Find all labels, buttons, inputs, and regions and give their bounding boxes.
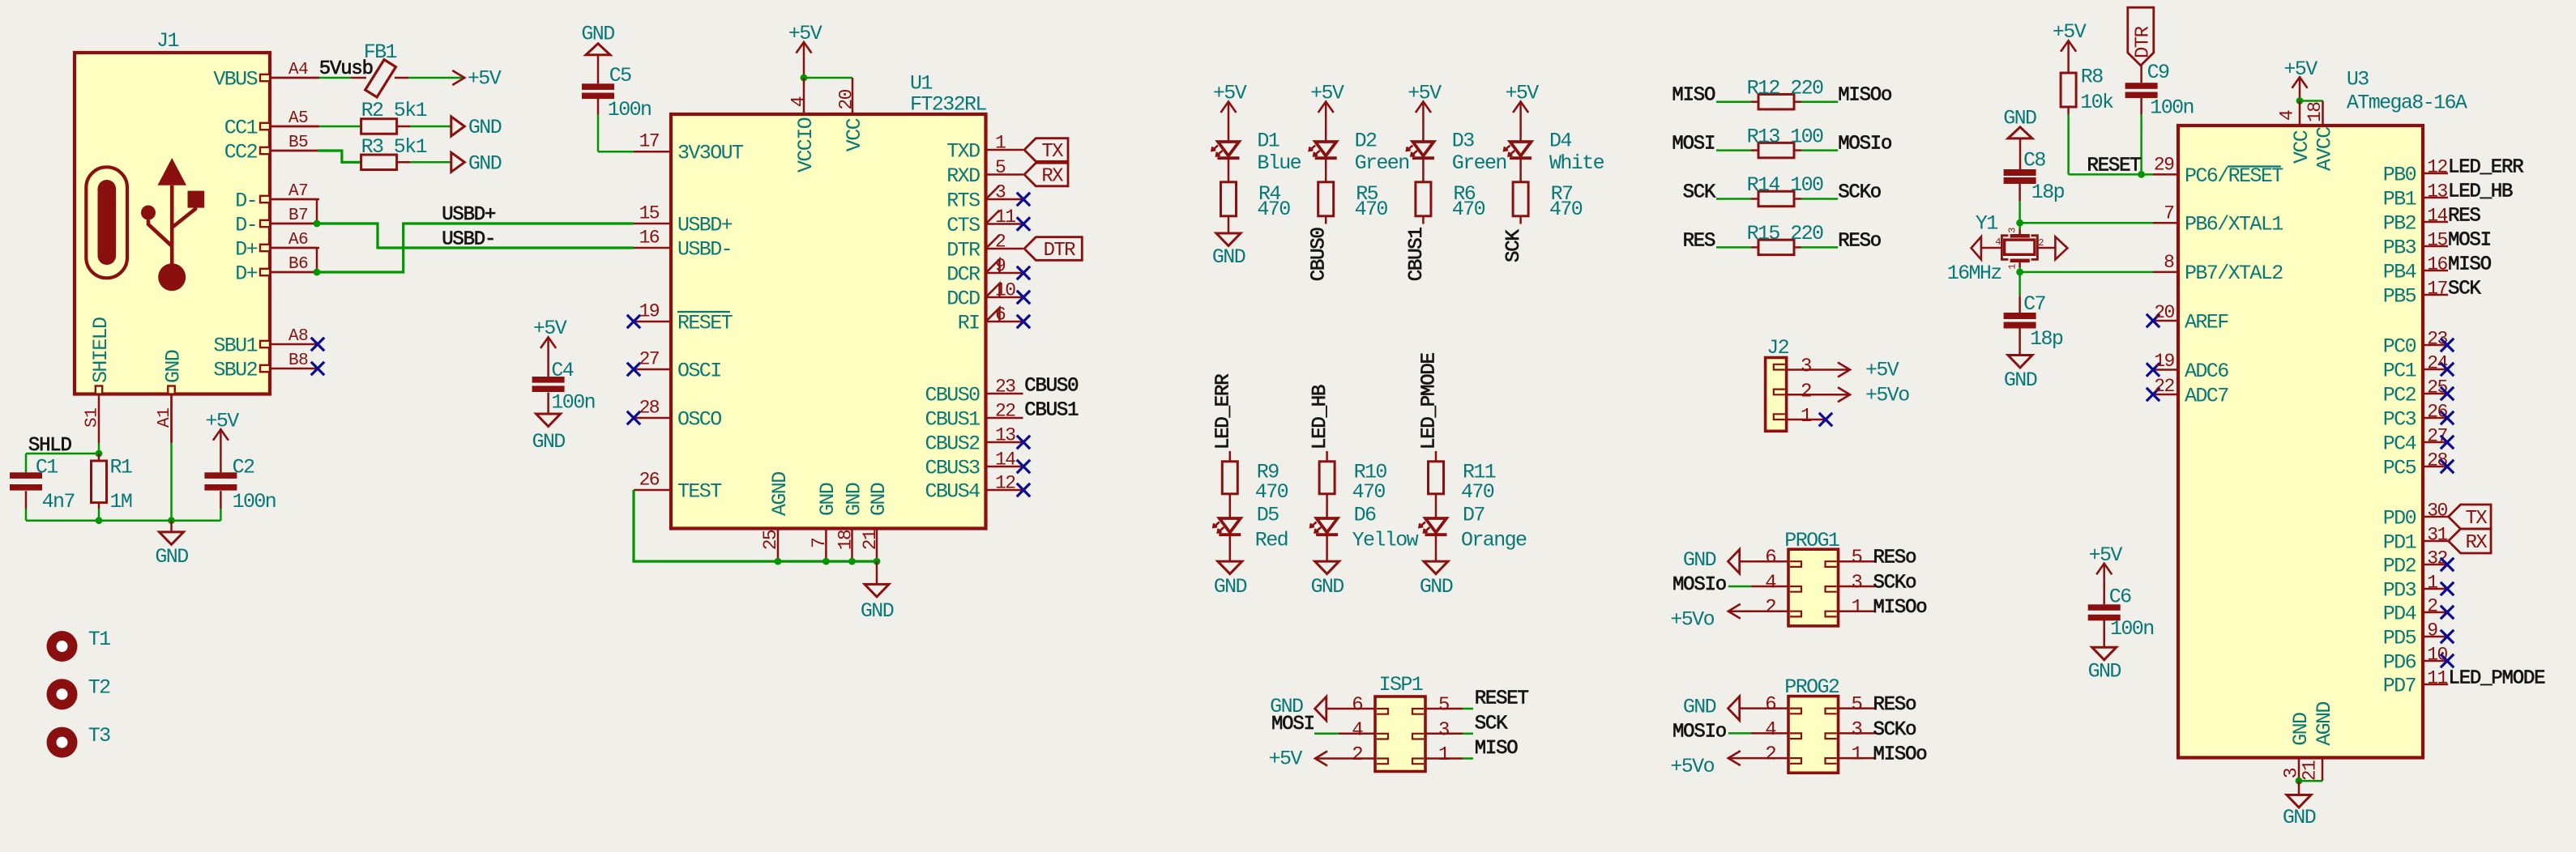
svg-text:12: 12 bbox=[2427, 157, 2447, 178]
svg-text:PC4: PC4 bbox=[2383, 432, 2416, 455]
svg-text:2: 2 bbox=[1765, 744, 1775, 766]
svg-text:PB5: PB5 bbox=[2383, 284, 2416, 308]
svg-text:+5V: +5V bbox=[1310, 82, 1344, 105]
svg-text:GND: GND bbox=[155, 545, 188, 569]
svg-text:+5V: +5V bbox=[205, 410, 239, 433]
svg-text:18p: 18p bbox=[2031, 181, 2065, 204]
svg-text:MOSIo: MOSIo bbox=[1838, 134, 1891, 155]
svg-text:S1: S1 bbox=[83, 408, 102, 428]
svg-text:PD4: PD4 bbox=[2383, 602, 2416, 625]
svg-text:PD5: PD5 bbox=[2383, 626, 2416, 650]
svg-text:C5: C5 bbox=[609, 64, 631, 87]
svg-text:CBUS0: CBUS0 bbox=[925, 383, 980, 407]
svg-text:LED_ERR: LED_ERR bbox=[1212, 374, 1234, 449]
svg-text:PC0: PC0 bbox=[2383, 334, 2416, 358]
svg-text:Green: Green bbox=[1355, 151, 1409, 175]
svg-text:GND: GND bbox=[2289, 713, 2313, 746]
svg-text:USBD-: USBD- bbox=[442, 229, 495, 251]
svg-text:ADC6: ADC6 bbox=[2185, 360, 2228, 383]
svg-text:3V3OUT: 3V3OUT bbox=[677, 141, 744, 164]
svg-text:GND: GND bbox=[1212, 245, 1245, 269]
svg-text:MOSI: MOSI bbox=[2448, 230, 2491, 252]
svg-text:PD3: PD3 bbox=[2383, 578, 2416, 602]
svg-text:GND: GND bbox=[842, 483, 865, 516]
svg-text:10: 10 bbox=[995, 279, 1015, 300]
svg-text:GND: GND bbox=[816, 483, 839, 516]
svg-text:PC3: PC3 bbox=[2383, 407, 2416, 431]
svg-text:1: 1 bbox=[1852, 597, 1863, 619]
svg-text:PC6/RESET: PC6/RESET bbox=[2185, 164, 2283, 188]
svg-text:+5Vo: +5Vo bbox=[1670, 608, 1714, 632]
svg-text:GND: GND bbox=[1214, 575, 1247, 599]
svg-text:+5V: +5V bbox=[2089, 543, 2123, 567]
svg-text:SCK: SCK bbox=[1503, 229, 1525, 262]
svg-text:AGND: AGND bbox=[768, 472, 792, 516]
svg-text:4: 4 bbox=[1995, 236, 2001, 248]
svg-text:470: 470 bbox=[1549, 198, 1583, 221]
svg-text:5: 5 bbox=[1852, 547, 1862, 569]
svg-text:3: 3 bbox=[1852, 573, 1862, 594]
svg-text:4: 4 bbox=[1352, 719, 1363, 741]
svg-text:9: 9 bbox=[2427, 620, 2437, 641]
svg-text:MOSIo: MOSIo bbox=[1672, 721, 1726, 743]
svg-text:7: 7 bbox=[809, 539, 830, 548]
svg-text:C2: C2 bbox=[233, 455, 254, 479]
svg-text:Blue: Blue bbox=[1257, 151, 1301, 175]
svg-text:470: 470 bbox=[1352, 480, 1386, 504]
svg-text:VCCIO: VCCIO bbox=[794, 117, 818, 173]
svg-text:D5: D5 bbox=[1257, 503, 1279, 526]
svg-text:GND: GND bbox=[161, 350, 185, 383]
svg-text:30: 30 bbox=[2427, 501, 2447, 522]
svg-text:GND: GND bbox=[2283, 806, 2316, 829]
svg-text:GND: GND bbox=[532, 430, 565, 454]
svg-text:19: 19 bbox=[2154, 351, 2174, 372]
svg-text:D-: D- bbox=[235, 190, 257, 213]
svg-text:D4: D4 bbox=[1549, 129, 1571, 152]
svg-text:A4: A4 bbox=[288, 61, 308, 79]
svg-text:17: 17 bbox=[639, 131, 659, 152]
svg-text:15: 15 bbox=[639, 203, 660, 224]
svg-text:SCKo: SCKo bbox=[1873, 573, 1916, 594]
svg-text:R12 220: R12 220 bbox=[1747, 76, 1823, 100]
svg-text:R1: R1 bbox=[110, 455, 132, 479]
svg-text:470: 470 bbox=[1452, 198, 1485, 221]
svg-text:D6: D6 bbox=[1354, 503, 1376, 526]
svg-text:B6: B6 bbox=[288, 255, 308, 274]
svg-text:DTR: DTR bbox=[946, 238, 980, 262]
svg-text:B7: B7 bbox=[288, 207, 308, 225]
svg-text:RI: RI bbox=[958, 311, 980, 334]
svg-text:GND: GND bbox=[468, 116, 502, 139]
svg-text:PD7: PD7 bbox=[2383, 674, 2416, 697]
svg-text:USBD+: USBD+ bbox=[677, 213, 733, 236]
svg-text:PC2: PC2 bbox=[2383, 383, 2416, 407]
svg-text:3: 3 bbox=[1801, 356, 1811, 378]
svg-text:C7: C7 bbox=[2023, 292, 2045, 316]
svg-text:PB4: PB4 bbox=[2383, 260, 2416, 283]
svg-text:AREF: AREF bbox=[2185, 310, 2228, 334]
svg-text:J2: J2 bbox=[1766, 336, 1788, 360]
svg-text:2: 2 bbox=[1352, 744, 1362, 766]
svg-text:TXD: TXD bbox=[946, 139, 980, 163]
svg-text:R2 5k1: R2 5k1 bbox=[361, 99, 427, 122]
svg-text:2: 2 bbox=[995, 231, 1006, 252]
svg-text:CTS: CTS bbox=[946, 214, 980, 237]
svg-text:6: 6 bbox=[1352, 695, 1362, 717]
svg-text:+5V: +5V bbox=[533, 317, 567, 340]
svg-text:CC2: CC2 bbox=[224, 141, 258, 164]
svg-text:CBUS0: CBUS0 bbox=[1024, 376, 1078, 398]
svg-text:470: 470 bbox=[1257, 198, 1290, 221]
svg-text:R14 100: R14 100 bbox=[1747, 173, 1823, 197]
svg-text:2: 2 bbox=[1765, 597, 1775, 619]
svg-text:MISO: MISO bbox=[1672, 85, 1715, 107]
svg-text:PD2: PD2 bbox=[2383, 554, 2416, 577]
svg-text:VBUS: VBUS bbox=[213, 68, 257, 92]
svg-text:PROG1: PROG1 bbox=[1784, 529, 1839, 552]
svg-text:USBD-: USBD- bbox=[677, 237, 732, 261]
svg-text:RESo: RESo bbox=[1838, 230, 1881, 252]
svg-text:ISP1: ISP1 bbox=[1379, 673, 1423, 697]
svg-text:PB3: PB3 bbox=[2383, 236, 2416, 259]
svg-text:SCK: SCK bbox=[1683, 182, 1716, 204]
svg-text:PROG2: PROG2 bbox=[1784, 675, 1839, 699]
svg-text:MISO: MISO bbox=[1475, 738, 1519, 760]
svg-text:11: 11 bbox=[2427, 668, 2447, 689]
svg-text:D+: D+ bbox=[235, 238, 257, 262]
svg-text:4: 4 bbox=[2277, 110, 2298, 121]
svg-text:OSCI: OSCI bbox=[677, 359, 721, 382]
svg-text:19: 19 bbox=[639, 301, 660, 322]
svg-text:+5V: +5V bbox=[788, 22, 822, 45]
svg-text:A6: A6 bbox=[288, 231, 308, 249]
svg-text:18p: 18p bbox=[2030, 327, 2063, 351]
svg-text:100n: 100n bbox=[608, 98, 651, 121]
svg-text:GND: GND bbox=[1420, 575, 1453, 599]
svg-text:ATmega8-16A: ATmega8-16A bbox=[2347, 92, 2467, 115]
svg-text:C4: C4 bbox=[551, 359, 573, 382]
svg-text:12: 12 bbox=[995, 472, 1015, 493]
svg-text:SCK: SCK bbox=[1475, 713, 1508, 735]
svg-text:A7: A7 bbox=[288, 182, 308, 201]
svg-text:AGND: AGND bbox=[2313, 702, 2336, 746]
svg-text:3: 3 bbox=[995, 181, 1006, 202]
svg-text:D-: D- bbox=[235, 214, 257, 237]
svg-text:+5V: +5V bbox=[1865, 359, 1899, 382]
svg-text:R15 220: R15 220 bbox=[1747, 222, 1823, 245]
svg-text:PB7/XTAL2: PB7/XTAL2 bbox=[2185, 262, 2283, 285]
svg-text:31: 31 bbox=[2427, 525, 2447, 546]
svg-text:RES: RES bbox=[1683, 230, 1715, 252]
svg-text:+5V: +5V bbox=[1213, 82, 1247, 105]
svg-text:CBUS4: CBUS4 bbox=[925, 479, 980, 503]
svg-text:6: 6 bbox=[1765, 547, 1775, 569]
svg-text:LED_HB: LED_HB bbox=[1309, 385, 1331, 449]
svg-text:23: 23 bbox=[995, 376, 1015, 397]
svg-text:SBU2: SBU2 bbox=[213, 359, 257, 382]
svg-text:27: 27 bbox=[2427, 426, 2446, 447]
svg-text:CBUS1: CBUS1 bbox=[1024, 400, 1079, 422]
svg-text:PD0: PD0 bbox=[2383, 506, 2416, 530]
svg-text:PC1: PC1 bbox=[2383, 359, 2416, 382]
svg-text:+5V: +5V bbox=[2053, 20, 2087, 44]
svg-text:CBUS2: CBUS2 bbox=[925, 432, 980, 455]
svg-text:5: 5 bbox=[1438, 695, 1449, 717]
svg-text:7: 7 bbox=[2164, 203, 2173, 224]
svg-text:100n: 100n bbox=[2150, 96, 2194, 119]
svg-text:4: 4 bbox=[788, 96, 810, 107]
svg-text:DCR: DCR bbox=[946, 262, 980, 286]
svg-text:LED_PMODE: LED_PMODE bbox=[2449, 668, 2546, 690]
svg-text:D7: D7 bbox=[1463, 503, 1485, 526]
svg-text:VCC: VCC bbox=[2290, 130, 2313, 164]
svg-text:29: 29 bbox=[2154, 155, 2174, 176]
svg-text:MOSI: MOSI bbox=[1271, 714, 1314, 735]
svg-text:GND: GND bbox=[861, 599, 894, 623]
svg-text:21: 21 bbox=[860, 530, 881, 550]
svg-text:DCD: DCD bbox=[946, 287, 980, 310]
svg-text:MISO: MISO bbox=[2448, 254, 2492, 276]
svg-text:1: 1 bbox=[2006, 263, 2018, 269]
svg-text:R13 100: R13 100 bbox=[1747, 125, 1823, 148]
svg-text:PC5: PC5 bbox=[2383, 456, 2416, 479]
svg-text:D2: D2 bbox=[1355, 129, 1377, 152]
svg-text:3: 3 bbox=[2006, 228, 2018, 233]
svg-text:1M: 1M bbox=[110, 490, 132, 513]
svg-text:18: 18 bbox=[835, 530, 857, 550]
svg-text:Yellow: Yellow bbox=[1352, 528, 1419, 552]
svg-text:C9: C9 bbox=[2147, 61, 2169, 84]
svg-text:R3 5k1: R3 5k1 bbox=[361, 135, 427, 159]
svg-text:SHIELD: SHIELD bbox=[89, 317, 113, 383]
svg-text:SHLD: SHLD bbox=[28, 435, 72, 457]
svg-text:RXD: RXD bbox=[946, 164, 980, 188]
svg-text:25: 25 bbox=[760, 530, 781, 550]
svg-text:C6: C6 bbox=[2109, 585, 2131, 608]
svg-text:21: 21 bbox=[2300, 760, 2321, 781]
svg-text:4: 4 bbox=[1765, 573, 1776, 594]
svg-text:C8: C8 bbox=[2023, 148, 2045, 172]
svg-text:White: White bbox=[1549, 151, 1604, 175]
svg-text:5: 5 bbox=[995, 157, 1006, 178]
svg-text:T1: T1 bbox=[88, 628, 110, 651]
svg-text:14: 14 bbox=[995, 449, 1015, 470]
svg-text:16: 16 bbox=[639, 228, 660, 249]
svg-text:SCKo: SCKo bbox=[1838, 182, 1881, 204]
svg-text:CBUS1: CBUS1 bbox=[925, 407, 980, 431]
svg-text:CBUS0: CBUS0 bbox=[1309, 228, 1331, 281]
svg-text:RX: RX bbox=[2465, 532, 2487, 554]
svg-text:ADC7: ADC7 bbox=[2185, 384, 2228, 407]
svg-text:17: 17 bbox=[2427, 279, 2446, 300]
svg-text:MISOo: MISOo bbox=[1838, 85, 1891, 107]
svg-text:J1: J1 bbox=[156, 29, 178, 53]
svg-text:100n: 100n bbox=[2110, 617, 2154, 641]
svg-text:RTS: RTS bbox=[946, 189, 980, 212]
svg-text:Green: Green bbox=[1452, 151, 1506, 175]
svg-text:PB6/XTAL1: PB6/XTAL1 bbox=[2185, 213, 2283, 236]
svg-text:PB1: PB1 bbox=[2383, 187, 2416, 211]
svg-text:2: 2 bbox=[2427, 596, 2437, 617]
svg-text:20: 20 bbox=[836, 89, 857, 109]
svg-text:D+: D+ bbox=[235, 262, 257, 286]
svg-text:470: 470 bbox=[1355, 198, 1388, 221]
svg-text:3: 3 bbox=[1852, 719, 1862, 741]
svg-text:RX: RX bbox=[1041, 166, 1063, 188]
svg-text:10k: 10k bbox=[2080, 91, 2113, 114]
svg-text:AVCC: AVCC bbox=[2313, 127, 2336, 171]
svg-text:4: 4 bbox=[1765, 719, 1776, 741]
svg-text:20: 20 bbox=[2154, 302, 2174, 323]
svg-text:470: 470 bbox=[1255, 480, 1288, 504]
svg-text:13: 13 bbox=[995, 424, 1015, 445]
svg-text:28: 28 bbox=[639, 398, 660, 419]
svg-text:GND: GND bbox=[468, 151, 502, 175]
svg-text:RESo: RESo bbox=[1873, 694, 1916, 716]
svg-text:1: 1 bbox=[995, 132, 1006, 153]
svg-text:22: 22 bbox=[2154, 376, 2174, 397]
svg-text:LED_HB: LED_HB bbox=[2448, 181, 2513, 203]
svg-text:14: 14 bbox=[2427, 206, 2447, 227]
svg-text:27: 27 bbox=[639, 349, 659, 370]
svg-text:LED_ERR: LED_ERR bbox=[2448, 157, 2523, 179]
svg-text:FT232RL: FT232RL bbox=[910, 93, 986, 117]
svg-text:MOSI: MOSI bbox=[1672, 134, 1715, 155]
svg-text:11: 11 bbox=[995, 207, 1015, 228]
svg-text:DTR: DTR bbox=[2133, 26, 2155, 58]
svg-text:SCKo: SCKo bbox=[1873, 719, 1916, 741]
svg-text:SBU1: SBU1 bbox=[213, 334, 257, 358]
svg-text:USBD+: USBD+ bbox=[442, 204, 496, 226]
svg-text:TX: TX bbox=[2465, 508, 2487, 530]
svg-text:1: 1 bbox=[1801, 406, 1812, 428]
svg-text:1: 1 bbox=[2427, 573, 2437, 594]
svg-text:GND: GND bbox=[1683, 548, 1716, 572]
svg-text:C1: C1 bbox=[36, 455, 58, 479]
svg-text:DTR: DTR bbox=[1044, 240, 1076, 262]
svg-text:470: 470 bbox=[1461, 480, 1494, 504]
svg-text:MISOo: MISOo bbox=[1873, 744, 1927, 766]
svg-text:3: 3 bbox=[1438, 719, 1449, 741]
svg-text:LED_PMODE: LED_PMODE bbox=[1419, 352, 1441, 449]
svg-text:Orange: Orange bbox=[1461, 528, 1527, 552]
svg-text:MISOo: MISOo bbox=[1873, 597, 1927, 619]
svg-text:15: 15 bbox=[2427, 230, 2447, 251]
svg-text:+5Vo: +5Vo bbox=[1865, 383, 1909, 407]
svg-text:TEST: TEST bbox=[677, 479, 722, 503]
svg-text:18: 18 bbox=[2305, 102, 2326, 122]
svg-text:GND: GND bbox=[2088, 660, 2121, 684]
svg-text:6: 6 bbox=[1765, 694, 1775, 716]
svg-text:A8: A8 bbox=[288, 327, 308, 346]
svg-text:GND: GND bbox=[1683, 696, 1716, 719]
svg-text:T2: T2 bbox=[88, 675, 110, 699]
svg-text:PB2: PB2 bbox=[2383, 211, 2416, 235]
svg-text:13: 13 bbox=[2427, 181, 2447, 202]
svg-text:Red: Red bbox=[1255, 528, 1288, 552]
svg-text:2: 2 bbox=[2038, 237, 2044, 249]
svg-text:26: 26 bbox=[639, 470, 660, 491]
svg-text:B5: B5 bbox=[288, 134, 308, 152]
svg-text:PB0: PB0 bbox=[2383, 163, 2416, 186]
svg-text:100n: 100n bbox=[233, 490, 276, 513]
svg-text:PD1: PD1 bbox=[2383, 530, 2416, 554]
svg-text:U1: U1 bbox=[910, 72, 932, 96]
svg-text:RESET: RESET bbox=[1475, 688, 1529, 710]
svg-text:VCC: VCC bbox=[843, 118, 866, 151]
svg-text:SCK: SCK bbox=[2448, 279, 2481, 300]
svg-text:RESET: RESET bbox=[677, 311, 733, 334]
svg-text:OSCO: OSCO bbox=[677, 407, 721, 431]
svg-text:MOSIo: MOSIo bbox=[1672, 574, 1726, 596]
svg-text:Y1: Y1 bbox=[1976, 212, 1997, 236]
svg-text:A5: A5 bbox=[288, 109, 308, 128]
svg-text:1: 1 bbox=[1852, 744, 1863, 766]
svg-text:PD6: PD6 bbox=[2383, 650, 2416, 674]
svg-text:+5V: +5V bbox=[1408, 82, 1442, 105]
svg-text:CBUS3: CBUS3 bbox=[925, 456, 980, 479]
svg-text:100n: 100n bbox=[551, 390, 595, 414]
svg-text:+5Vo: +5Vo bbox=[1670, 755, 1714, 778]
svg-text:RESET: RESET bbox=[2087, 155, 2142, 177]
svg-text:R8: R8 bbox=[2081, 66, 2103, 89]
svg-text:+5V: +5V bbox=[1505, 82, 1539, 105]
svg-text:4n7: 4n7 bbox=[42, 490, 75, 513]
svg-text:T3: T3 bbox=[88, 724, 110, 748]
svg-text:D3: D3 bbox=[1452, 129, 1474, 152]
svg-text:5Vusb: 5Vusb bbox=[319, 58, 373, 80]
svg-text:8: 8 bbox=[2164, 252, 2174, 273]
svg-text:U3: U3 bbox=[2347, 67, 2369, 91]
svg-text:GND: GND bbox=[867, 483, 891, 516]
svg-text:2: 2 bbox=[1801, 381, 1811, 403]
svg-text:RES: RES bbox=[2448, 206, 2480, 228]
svg-text:TX: TX bbox=[1041, 141, 1063, 163]
svg-text:GND: GND bbox=[2004, 368, 2037, 392]
svg-text:16: 16 bbox=[2427, 254, 2447, 275]
svg-text:+5V: +5V bbox=[1269, 748, 1303, 771]
svg-text:+5V: +5V bbox=[468, 67, 502, 91]
svg-text:16MHz: 16MHz bbox=[1947, 262, 2002, 285]
svg-text:CBUS1: CBUS1 bbox=[1406, 227, 1428, 281]
svg-text:RESo: RESo bbox=[1873, 547, 1916, 569]
svg-text:CC1: CC1 bbox=[224, 117, 258, 140]
svg-text:1: 1 bbox=[1438, 744, 1450, 766]
svg-text:GND: GND bbox=[1310, 575, 1344, 599]
svg-text:5: 5 bbox=[1852, 694, 1862, 716]
svg-text:B8: B8 bbox=[288, 351, 308, 370]
svg-text:22: 22 bbox=[995, 400, 1015, 421]
svg-text:D1: D1 bbox=[1257, 129, 1279, 152]
